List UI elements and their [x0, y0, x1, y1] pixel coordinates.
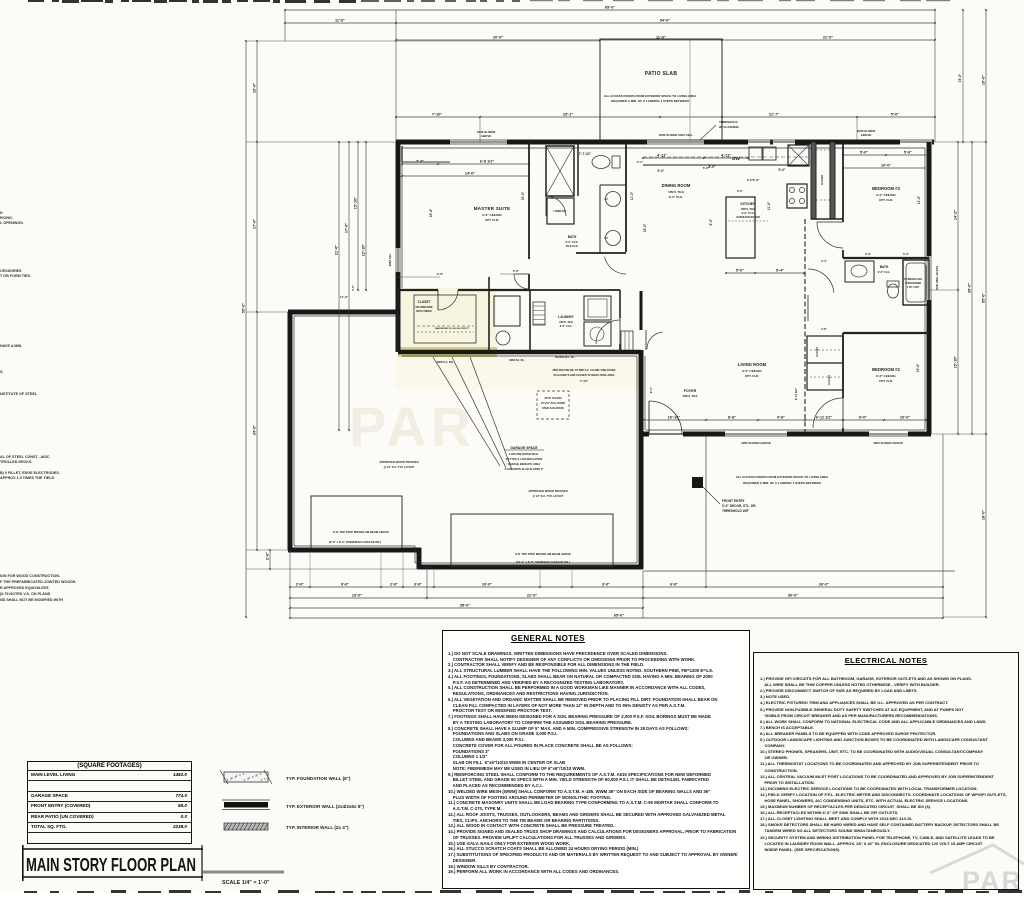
garage bottom-right exterior wall [417, 565, 643, 570]
garage door rect right [451, 514, 613, 566]
hall to foyer door arc [647, 332, 663, 349]
living room dim row [643, 419, 926, 421]
garage left exterior wall [288, 312, 293, 550]
bedroom3 west wall [842, 142, 844, 222]
hall west wall dashed [804, 219, 806, 434]
scan noise top edge [28, 0, 950, 3]
toilet master [592, 156, 610, 169]
patio slab outline [600, 39, 722, 140]
garage leader lines [433, 357, 500, 466]
svg-text:TYP. INTERIOR WALL (2x 4"): TYP. INTERIOR WALL (2x 4") [286, 825, 349, 830]
front porch slab edge [643, 570, 955, 572]
dimension row 65ft overall top [285, 9, 935, 11]
laundry washer [584, 296, 611, 320]
refrigerator [788, 145, 809, 166]
dimension row offsets above wall [396, 116, 935, 118]
inner vertical dims left of master [338, 142, 340, 430]
garage top-left exterior wall [288, 310, 399, 315]
master bedroom south wall [398, 289, 438, 291]
left margin note fragments [0, 211, 76, 602]
bath2 door arc [808, 269, 834, 293]
garage steps [621, 331, 633, 351]
shower master with X [546, 146, 574, 196]
attic access dashed box [537, 391, 569, 419]
master bath partition [577, 142, 579, 196]
garage left interior line [396, 312, 398, 352]
dimension row 11ft 54ft [285, 22, 935, 24]
bath2 vanity [845, 261, 874, 282]
garage wall jog [417, 548, 422, 569]
laundry dryer [584, 322, 611, 346]
svg-text:TYP. EXTERIOR WALL (2x4/2x6x 8: TYP. EXTERIOR WALL (2x4/2x6x 8") [286, 804, 365, 809]
vanity sink 1 [606, 192, 621, 207]
garage bottom-left exterior wall [288, 548, 421, 553]
bottom extension verticals [289, 550, 291, 618]
master bath vanity counter [599, 185, 601, 254]
window top wall kitchen [748, 141, 795, 143]
pale yellow wash below wall [396, 357, 642, 389]
right extension horizontals [929, 141, 986, 143]
master bath south wall [576, 252, 626, 254]
electrical notes title [754, 656, 1018, 665]
interior face line top wall [402, 147, 925, 149]
linen closet master [547, 198, 574, 224]
kitchen dim row [643, 157, 748, 159]
master suite east wall [528, 142, 530, 259]
laundry east wall with garage door [619, 290, 621, 318]
general notes text [448, 645, 749, 875]
left extension horizontals [246, 40, 257, 42]
window top wall dining slider [647, 141, 704, 143]
interior face line master left wall [401, 148, 403, 288]
closet door arc [438, 290, 458, 310]
kitchen island [726, 197, 755, 258]
exterior wall top with window openings [396, 140, 450, 145]
bottom dimension row 35 [290, 607, 643, 609]
right dimension column segments [957, 142, 959, 434]
svg-text:TYP. FOUNDATION WALL (8"): TYP. FOUNDATION WALL (8") [286, 776, 351, 781]
svg-text:MAIN STORY FLOOR PLAN: MAIN STORY FLOOR PLAN [26, 855, 196, 875]
general notes box [442, 630, 750, 889]
closet rod dashed [417, 325, 474, 327]
dimension row 20ft 11ft 22ft [396, 39, 935, 41]
strip wall mid [489, 289, 530, 291]
master interior dim row [402, 163, 529, 165]
window right wall bath [928, 256, 930, 300]
left dimension column segments [256, 41, 258, 550]
front entry door opening [649, 433, 683, 435]
pantry double wall [811, 142, 816, 219]
garage entry door arc [596, 320, 620, 344]
porch post [692, 477, 703, 488]
bedroom3 dim row [843, 154, 929, 156]
interior face line foyer wall [644, 356, 646, 430]
exterior wall right [927, 142, 932, 256]
wall legend exterior symbol [222, 800, 365, 810]
window top wall master [450, 141, 507, 143]
pantry south wall [811, 218, 843, 220]
exterior wall bottom living bedroom2 [643, 432, 649, 437]
right dimension column 30ft [971, 142, 973, 434]
patio inner extension line [689, 40, 691, 140]
master bath east wall [625, 142, 627, 252]
general notes title [443, 634, 653, 643]
window bottom wall living [725, 433, 787, 435]
wall legend interior symbol [224, 823, 349, 830]
window bottom wall bedroom2 [869, 433, 908, 435]
window master left wall [397, 248, 399, 272]
yellow highlighted bearing wall [398, 347, 497, 357]
bath2 south wall [843, 332, 929, 334]
kitchen counter line [643, 164, 808, 166]
bottom tick extension verticals garage doors [309, 552, 311, 587]
vanity sink 2 [606, 231, 621, 246]
electrical notes text [760, 670, 1018, 853]
bath2 north wall [843, 257, 929, 259]
interior wall closet east [488, 277, 490, 352]
bath hall door arc [546, 196, 566, 216]
foyer west exterior wall [640, 291, 643, 330]
garage door rect left [311, 496, 402, 548]
interior wall wc east [529, 290, 531, 352]
window sill detail master corner [402, 161, 450, 163]
square footages table [27, 761, 192, 844]
bottom dimension row segments [290, 586, 943, 588]
sheet title main story floor plan [22, 845, 282, 898]
bath2 toilet [888, 284, 899, 298]
master closet south wall [397, 290, 399, 352]
front door arc [649, 401, 682, 434]
wall legend foundation symbol [210, 768, 470, 838]
yellow highlight closet area [401, 288, 496, 350]
kitchen sink [749, 147, 762, 160]
highlighted hall bearing wall over garage [398, 350, 641, 355]
bedroom3 door arc [817, 222, 843, 248]
svg-text:SCALE 1/4" = 1'-0": SCALE 1/4" = 1'-0" [222, 880, 270, 886]
window top wall bedroom3 [900, 141, 932, 143]
closet strip outline [414, 295, 476, 343]
pantry shelves dashed [816, 149, 830, 151]
bottom dimension row 65 overall [290, 617, 943, 619]
scan noise bottom edge [24, 890, 1022, 893]
water closet fixture [494, 296, 520, 326]
left dimension column overall 55ft [245, 41, 247, 617]
dining door arc [605, 257, 627, 274]
exterior wall master left [396, 142, 401, 248]
interior face line right wall [924, 148, 926, 430]
interior face lines garage [293, 316, 295, 546]
kitchen upper cabinets dashed [643, 156, 808, 158]
hall shelving hatch [533, 302, 545, 325]
bottom dimension row 13 22 30 [290, 597, 943, 599]
right dimension column overall [985, 10, 987, 617]
dimension extension verticals top [284, 10, 286, 41]
left jog dim 2ft [269, 550, 271, 569]
interior face line bottom wall [646, 429, 925, 431]
gray PAR watermark bottom right with roof [930, 845, 1024, 896]
master suite door arc [514, 274, 529, 289]
electrical notes box [753, 652, 1019, 890]
range stove [787, 184, 807, 208]
bathtub [903, 260, 929, 305]
bedroom2 closets [807, 336, 843, 390]
bedroom2 door arc [813, 398, 843, 428]
bedroom2 west wall [842, 333, 844, 398]
